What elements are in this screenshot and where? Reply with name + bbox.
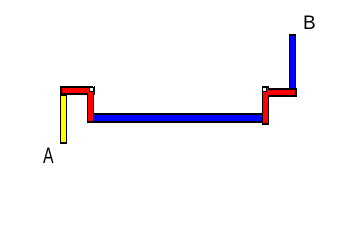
handle marker 2 (right corner) [262,87,267,92]
handle marker 1 (left corner) [89,87,94,92]
node A label [43,145,54,167]
node B label [303,14,316,33]
wire segment left elbow horizontal (red) [60,86,95,95]
wire segment B (blue vertical leg) [289,34,296,90]
wire segment A (yellow vertical leg) [60,95,67,144]
wire segment right elbow horizontal (red) [262,88,297,97]
wire segment left elbow vertical (red) [87,86,94,123]
wire segment long horizontal (blue) [93,113,269,123]
wire segment right elbow vertical (red) [262,86,269,125]
